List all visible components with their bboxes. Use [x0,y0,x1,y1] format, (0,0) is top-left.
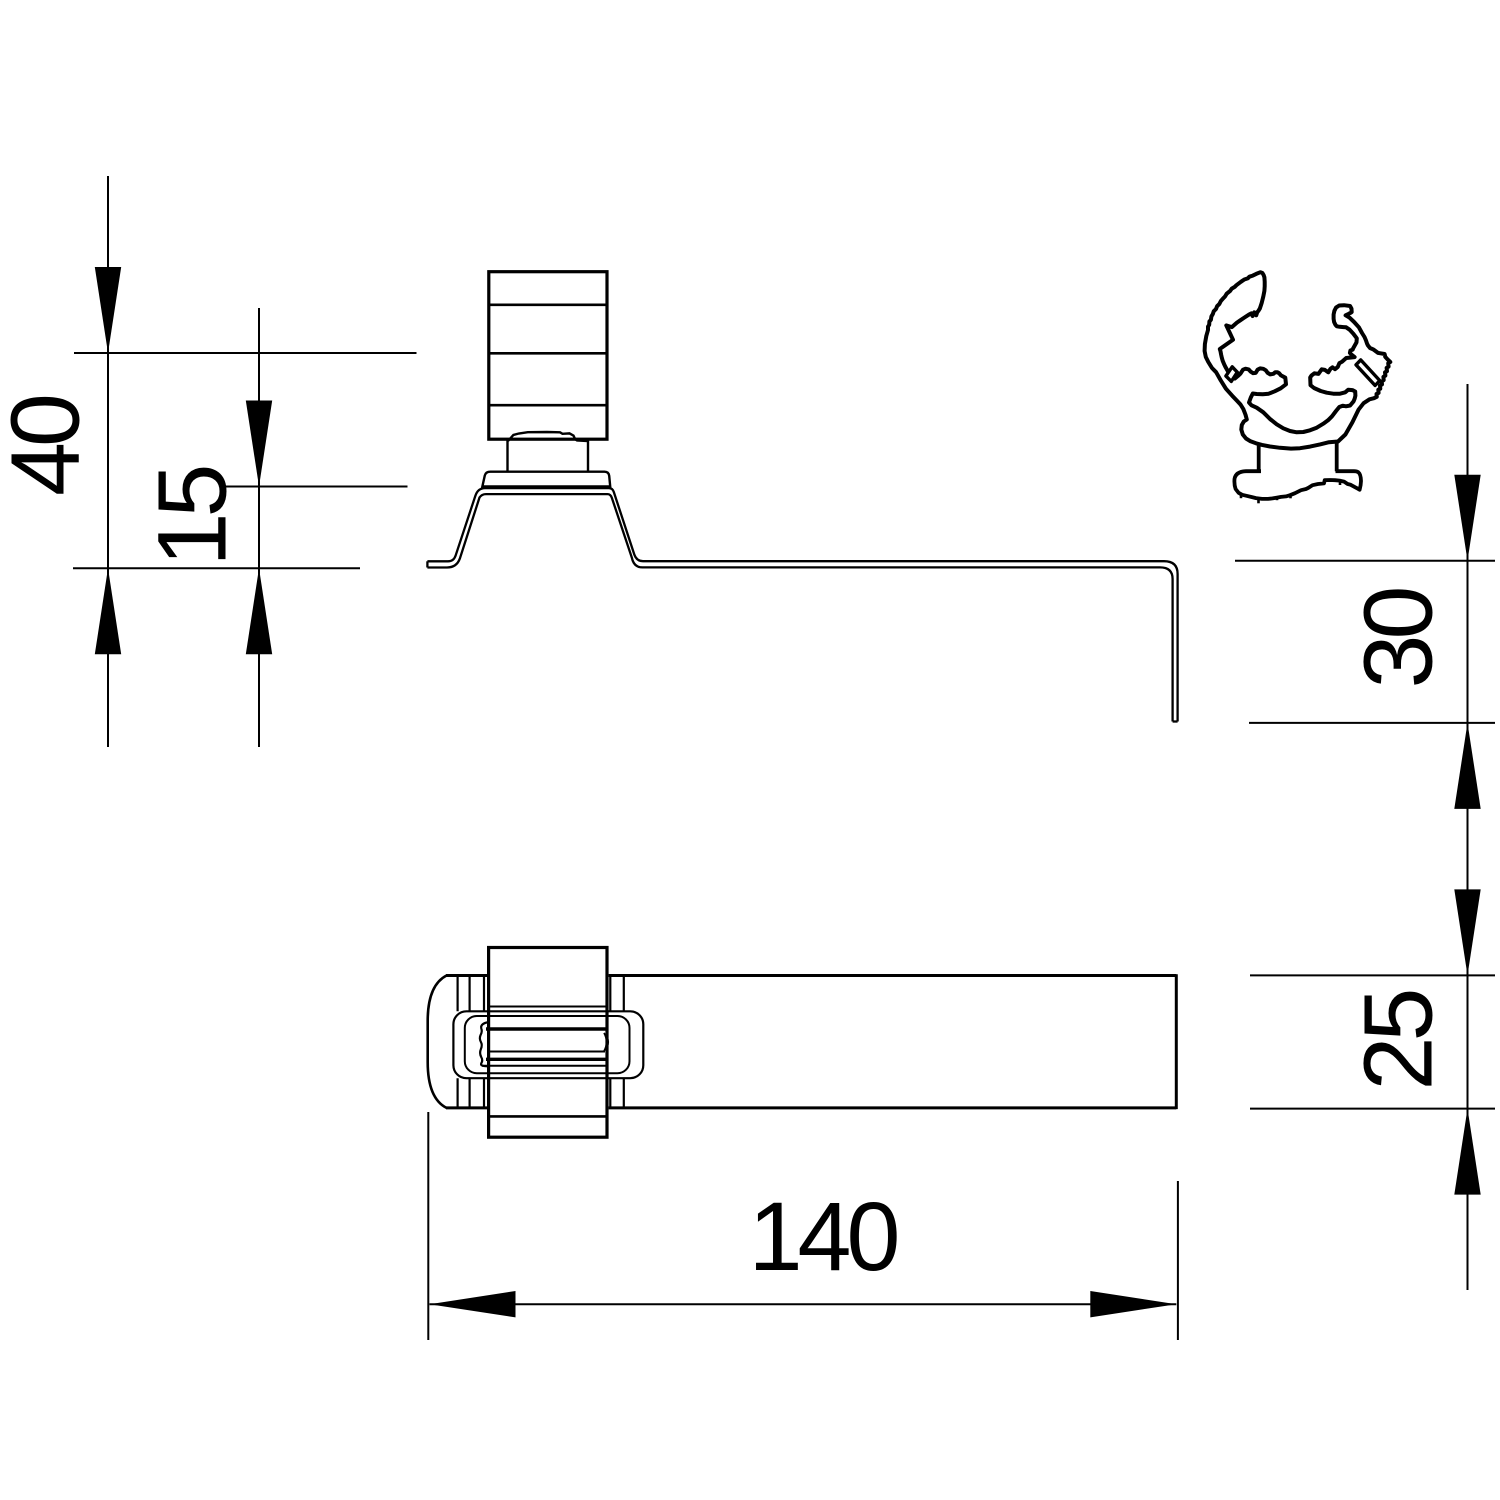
slanted slot hole (right) [1356,360,1380,386]
svg-text:15: 15 [138,468,247,567]
channel line c [490,1051,605,1053]
right dimension line [1467,384,1469,1290]
extension line right (140) [1177,1181,1179,1340]
clip neck (front view) right line [1335,441,1339,471]
clip bottom wavy profile in front of block [508,432,588,441]
fold line 1 (left) [457,976,459,1108]
channel line d (thick double) [486,1058,607,1061]
strip top-surface line (side view) [427,488,1177,721]
arrow up to 568 on 40-line [95,568,121,654]
base texture ticks [1241,481,1340,504]
white gap erasing base top edge across neck [1261,468,1336,476]
channel line e [482,1065,606,1067]
clip neck (side view) [506,440,508,472]
arrow down to 486.5 [246,401,272,487]
saddle inner pill (bottom view) [465,1016,630,1073]
clip block (side view) [489,272,607,440]
extension line top of 40 [74,352,417,354]
block horizontal line 3 [490,404,606,407]
small parallelogram hole (left) [1226,367,1237,382]
fold line 3 (left) [483,976,485,1108]
strip top edge (bottom view, interrupted by block) [446,974,1176,977]
arrow up to 722.9 [1454,723,1480,809]
channel line b (thick double) [486,1027,607,1030]
block horizontal line 1 [490,303,606,306]
clip neck (front view) left line [1257,443,1261,472]
dimension line 140 [430,1303,1177,1305]
arrow down to 560.7 [1454,475,1480,561]
arrow up to 1108.6 [1454,1109,1480,1195]
saddle outer pill (bottom view) [453,1011,643,1078]
arrow up to 568 on 15-line [246,568,272,654]
clip body outline (front view) [1205,272,1391,448]
arrow right to 1176 [1090,1291,1176,1317]
svg-text:30: 30 [1344,589,1453,689]
extension line bottom-view top (right) [1250,974,1495,976]
wavy brace (neck seen from below) [480,1022,489,1066]
dimension line 40 [107,176,109,747]
strip right leg end cap [1173,720,1178,722]
block horizontal line 2 [490,352,606,355]
washer / dome under clip (side view) [482,472,610,487]
channel line a [490,1006,606,1008]
block internal line (bottom view) [490,1115,606,1118]
arrow left to 428 [430,1291,516,1317]
strip left end cap [426,561,428,567]
arrow down to 353 [95,267,121,353]
dimension line 15 [258,308,260,747]
clip block (bottom view) [489,948,607,1138]
svg-text:140: 140 [749,1182,898,1291]
strip right end edge [1175,974,1178,1109]
strip bottom-surface line (side view) [427,494,1172,721]
extension line bottom (shared) [73,567,360,569]
strip left tab rounded tip [428,976,447,1108]
extension line bottom-view bottom (right) [1250,1108,1495,1110]
svg-text:40: 40 [0,396,100,496]
clip base pedestal (front view) [1234,471,1361,499]
svg-text:25: 25 [1344,992,1453,1091]
strip bottom edge (bottom view, interrupted by block) [446,1106,1176,1109]
extension line strip top (right) [1235,560,1495,562]
fold line 4 (right) [609,976,611,1108]
extension line top of 15 [221,486,408,488]
extension line leg bottom (right) [1249,722,1495,724]
fold line 2 (left) [469,976,471,1108]
fold line 5 (right) [623,976,625,1108]
channel right end crescent [604,1033,608,1051]
extension line left (140) [427,1112,429,1340]
arrow down to 975.4 [1454,889,1480,975]
